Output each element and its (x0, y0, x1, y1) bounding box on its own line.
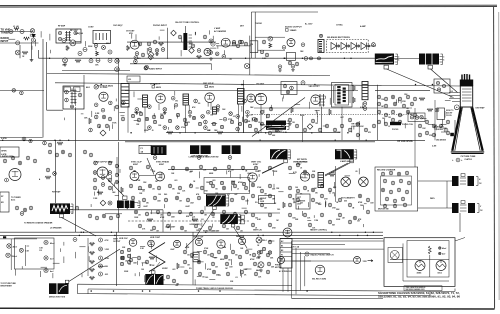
wire audio plate rail (127, 41, 216, 43)
connector pin 1 (280, 242, 292, 244)
capacitor C476 (393, 204, 397, 208)
horiz hold graph plate (220, 214, 238, 224)
capacitor C317 (101, 176, 105, 180)
CRT faceplate (451, 152, 484, 154)
capacitor C414 (311, 174, 315, 178)
wire (292, 253, 330, 255)
IF transformer T8 (238, 89, 245, 105)
capacitor C475 (383, 204, 387, 208)
capacitor C221 (148, 126, 152, 130)
svg-text:21ATP4: 21ATP4 (464, 158, 472, 161)
capacitor C150 (278, 65, 282, 69)
wire sync lead (147, 158, 154, 175)
resistor R111 (159, 43, 164, 46)
antenna arrow (32, 35, 35, 39)
capacitor C411 (288, 186, 292, 190)
capacitor C612 (58, 37, 61, 40)
capacitor C216 (253, 117, 257, 121)
capacitor C511 (217, 250, 221, 254)
svg-text:.047: .047 (190, 256, 194, 259)
svg-text:2.2M: 2.2M (95, 113, 100, 115)
wire leads horiz band (131, 241, 275, 285)
capacitor C234 (275, 128, 279, 132)
svg-text:4BZ6: 4BZ6 (209, 86, 215, 89)
test point TP7 (100, 200, 106, 206)
svg-text:INPUT: INPUT (1, 39, 9, 43)
wire B+ bus lower (0, 231, 383, 233)
vertical output V14 (300, 172, 309, 181)
bracket horiz freq (226, 195, 229, 206)
junction (228, 156, 232, 160)
capacitor C441 (348, 220, 352, 224)
svg-text:.001: .001 (172, 269, 176, 271)
svg-text:4mf: 4mf (442, 253, 446, 256)
capacitor C124 (155, 49, 159, 53)
selenium rectifier V22 (315, 265, 325, 275)
capacitor C220 (163, 126, 167, 130)
svg-text:100: 100 (300, 177, 303, 179)
capacitor C514 (238, 255, 242, 259)
bracket P5 (354, 150, 357, 159)
svg-text:390: 390 (177, 193, 180, 195)
junction (310, 57, 313, 60)
wire sound takeoff (75, 109, 77, 232)
reactance tube V28 (148, 240, 155, 247)
svg-text:.01: .01 (237, 188, 239, 190)
svg-text:560: 560 (235, 254, 238, 256)
wire B+ distribution rail (55, 83, 460, 86)
capacitor C302 (46, 168, 50, 172)
capacitor C107 (62, 39, 66, 43)
resistor R123 (353, 97, 356, 103)
capacitor C326 (109, 216, 113, 220)
wire (300, 252, 302, 291)
svg-text:1.5M: 1.5M (93, 198, 98, 200)
capacitor C182 (286, 90, 290, 94)
svg-text:.001: .001 (174, 180, 178, 182)
capacitor C264 (406, 95, 410, 99)
horizontal output V18 (217, 240, 225, 248)
capacitor C249 (372, 124, 376, 128)
wire B+ drop (243, 80, 245, 133)
svg-text:390: 390 (315, 192, 318, 194)
capacitor C263 (398, 97, 402, 101)
capacitor C375 (178, 210, 182, 214)
capacitor C469 (389, 190, 393, 194)
capacitor C202 (163, 108, 167, 112)
capacitor C384 (166, 224, 170, 228)
svg-text:.001: .001 (105, 274, 109, 276)
capacitor C466 (399, 179, 403, 183)
capacitor C643 (127, 254, 130, 257)
label 12AB5 (286, 29, 298, 33)
wire (254, 12, 256, 58)
capacitor C224 (183, 118, 187, 122)
height control box (259, 196, 275, 204)
junction dot (3, 236, 6, 238)
capacitor C608 (192, 116, 195, 119)
fuse block outline (139, 145, 151, 153)
wire sync bus (168, 168, 255, 170)
capacitor C510 (210, 253, 214, 257)
capacitor C518 (266, 253, 270, 257)
capacitor C318 (108, 178, 112, 182)
capacitor C105 (31, 38, 35, 42)
svg-text:470K: 470K (358, 201, 363, 204)
svg-text:MOVE TO: MOVE TO (446, 110, 454, 112)
test point TP9 (148, 55, 153, 60)
capacitor C647 (220, 181, 223, 184)
pin 2 (442, 84, 445, 87)
sync clipper V11 (130, 172, 139, 181)
svg-text:115V: 115V (363, 261, 368, 263)
wire output lead (106, 178, 124, 197)
svg-text:.0047: .0047 (143, 205, 148, 208)
capacitor C355 (200, 186, 204, 190)
wire (302, 116, 304, 142)
capacitor C133 (141, 53, 145, 57)
audio amp V10 (97, 167, 108, 178)
svg-text:AUDIO OUTPUT: AUDIO OUTPUT (285, 26, 302, 29)
wire (292, 244, 345, 246)
junction (89, 153, 93, 157)
wire (210, 102, 212, 110)
ground (246, 114, 250, 117)
capacitor C281 (418, 124, 422, 128)
svg-text:DAMPER: DAMPER (236, 235, 245, 238)
capacitor C265 (413, 97, 417, 101)
wire (280, 237, 383, 239)
capacitor C114 (89, 59, 93, 63)
wire audio bus (39, 57, 376, 59)
capacitor C467 (407, 181, 411, 185)
wire (216, 45, 251, 47)
wire (249, 36, 251, 75)
svg-text:F2: F2 (281, 259, 283, 261)
bracket T4 (440, 54, 443, 65)
capacitor C368 (219, 196, 223, 200)
resistor R174 (90, 261, 95, 264)
junction (153, 156, 157, 160)
capacitor C370 (241, 196, 245, 200)
wire height control lead (262, 163, 283, 173)
label 4BZ6 (152, 86, 162, 89)
capacitor C378 (211, 212, 215, 216)
audio output pentode V3 (287, 39, 295, 47)
capacitor C525 (267, 262, 271, 266)
capacitor C278 (384, 122, 388, 126)
capacitor C520 (197, 260, 201, 264)
sound discriminator transformer T9 (332, 83, 353, 108)
wire leads audio out band (91, 161, 120, 207)
capacitor C523 (239, 262, 243, 266)
wire (402, 243, 404, 281)
sound take-off coil L6 (319, 94, 325, 107)
capacitor C408 (288, 166, 292, 170)
wire (260, 105, 262, 133)
wire (184, 26, 186, 33)
wire (116, 157, 118, 175)
capacitor C354 (189, 184, 193, 188)
wire ground return (78, 294, 431, 296)
capacitor C271 (377, 110, 381, 114)
horizontal lock graph plate (335, 149, 354, 159)
capacitor C201 (148, 105, 152, 109)
phono motor board outline (375, 167, 418, 211)
wire (390, 259, 449, 261)
wire heater rail (47, 74, 330, 76)
capacitor C423 (338, 198, 342, 202)
wire AGC feed (42, 39, 44, 138)
svg-text:1ST DET: 1ST DET (126, 31, 135, 33)
capacitor C269 (402, 104, 406, 108)
svg-text:.047: .047 (340, 116, 344, 119)
wire input lead (0, 31, 33, 33)
capacitor C434 (353, 216, 357, 220)
capacitor C165 (94, 103, 98, 107)
resistor R131 (427, 109, 433, 112)
capacitor C364 (175, 196, 179, 200)
IF amplifier V5 (156, 94, 166, 104)
ground (30, 58, 34, 61)
capacitor C290 (435, 108, 439, 112)
bracket P4 (288, 150, 291, 159)
capacitor C404 (260, 189, 264, 193)
capacitor C309 (23, 208, 27, 212)
svg-text:5%: 5% (255, 202, 258, 204)
wire b+ rail (0, 137, 43, 139)
capacitor C356 (211, 184, 215, 188)
terminal board TB3 (0, 147, 19, 157)
capacitor C183 (363, 102, 367, 106)
capacitor C348 (129, 184, 133, 188)
discriminator triode V4 (99, 92, 108, 101)
capacitor C530 (240, 270, 244, 274)
CRT pin leads (449, 93, 460, 102)
svg-text:470K: 470K (207, 268, 212, 271)
page edge shade (498, 12, 500, 300)
svg-text:.047: .047 (175, 284, 179, 287)
wire leads sync band (135, 168, 367, 230)
junction (29, 139, 32, 142)
capacitor C142 (268, 36, 273, 41)
ground (135, 111, 139, 114)
svg-text:6mf: 6mf (50, 259, 54, 261)
capacitor C527 (198, 272, 202, 276)
warning box (296, 194, 310, 209)
capacitor C406 (268, 194, 272, 198)
connector P10 (123, 196, 128, 199)
capacitor C280 (398, 120, 402, 124)
capacitor C531 (254, 272, 258, 276)
wire (87, 238, 89, 276)
wire (105, 213, 122, 215)
capacitor C428 (251, 213, 255, 217)
capacitor C144 (282, 46, 286, 50)
power transformer T12 (151, 145, 167, 155)
capacitor C110 (108, 50, 112, 54)
wire (255, 36, 285, 38)
wire (454, 120, 456, 140)
resistor R147 (127, 203, 130, 209)
capacitor C102 (20, 30, 24, 34)
svg-text:ON-OFF TONE CONTROL: ON-OFF TONE CONTROL (175, 22, 200, 24)
capacitor C649 (242, 182, 245, 185)
rectifier tube V25 (436, 261, 446, 275)
capacitor C173 (121, 117, 125, 121)
capacitor C363 (164, 198, 168, 202)
trimmer A (64, 87, 71, 92)
capacitor C134 (209, 51, 213, 55)
svg-text:220K: 220K (144, 130, 149, 132)
capacitor C379 (222, 210, 226, 214)
svg-text:470K: 470K (238, 181, 243, 184)
wire (185, 210, 214, 248)
wire (243, 90, 245, 133)
capacitor C247 (356, 133, 360, 137)
triode V1 (130, 40, 139, 49)
phono motor M1 (390, 251, 399, 260)
svg-text:.047: .047 (234, 193, 238, 196)
capacitor C512 (224, 255, 228, 259)
capacitor C360 (131, 196, 135, 200)
brightness control R162 (222, 145, 241, 154)
vertical output transformer T4 (419, 54, 439, 65)
junction (71, 105, 74, 108)
oscillator can box (56, 29, 81, 43)
capacitor C501 (129, 258, 133, 262)
svg-text:.001: .001 (138, 214, 141, 216)
capacitor C435 (366, 210, 370, 214)
svg-text:270K: 270K (150, 265, 155, 267)
capacitor C374 (167, 212, 171, 216)
capacitor C346 (227, 165, 231, 169)
capacitor C276 (413, 113, 417, 117)
capacitor C185 (301, 81, 305, 85)
capacitor C112 (78, 52, 82, 56)
wire yoke plug lead (69, 249, 120, 282)
wire (341, 107, 343, 141)
capacitor C270 (410, 102, 414, 106)
capacitor C138 (236, 44, 240, 48)
svg-text:5: 5 (443, 60, 444, 62)
svg-text:PHONO INPUT: PHONO INPUT (153, 25, 168, 27)
CRT funnel (452, 108, 482, 151)
capacitor C340 (129, 166, 133, 170)
focus coil L7 (390, 122, 401, 125)
junction (439, 247, 441, 249)
svg-text:.0047: .0047 (243, 268, 248, 271)
capacitor C266 (377, 102, 381, 106)
contrast control R160 upper (266, 121, 286, 126)
coil L5 (213, 107, 217, 114)
deflection coil L9 (341, 177, 351, 187)
resistor R101 (14, 27, 19, 30)
capacitor C386 (194, 224, 198, 228)
capacitor C127 (203, 35, 207, 39)
svg-text:TO HORIZ: TO HORIZ (434, 129, 444, 131)
capacitor C214 (243, 99, 247, 103)
svg-text:100: 100 (141, 269, 144, 271)
capacitor C644 (120, 262, 123, 265)
capacitor C610 (58, 31, 61, 34)
wire (128, 220, 250, 222)
IF transformer T7 (183, 94, 189, 105)
wire (403, 280, 449, 282)
capacitor C424 (328, 203, 332, 207)
capacitor C377 (200, 210, 204, 214)
capacitor C433 (338, 213, 342, 217)
svg-text:680K: 680K (209, 173, 214, 175)
capacitor C235 (281, 124, 285, 128)
wire (394, 58, 419, 60)
capacitor C164 (78, 93, 82, 97)
svg-text:100: 100 (158, 194, 161, 196)
capacitor C275 (406, 110, 410, 114)
oscillator coil L2 (70, 40, 76, 46)
svg-text:6SN7: 6SN7 (159, 164, 165, 166)
wire leads video band (384, 98, 450, 132)
capacitor C169 (122, 101, 126, 105)
capacitor C376 (189, 212, 193, 216)
phono motor inner outline (381, 176, 412, 205)
svg-text:100: 100 (228, 259, 231, 261)
wire (292, 260, 353, 262)
wire (87, 289, 89, 294)
capacitor C172 (108, 117, 112, 121)
resistor R190 (428, 246, 431, 254)
svg-text:4 AMP: 4 AMP (360, 25, 366, 28)
capacitor C282 (425, 120, 429, 124)
yoke horizontal coils L11 (452, 176, 478, 186)
wire to CRT cathode (431, 69, 458, 93)
svg-text:270K: 270K (231, 181, 236, 183)
capacitor C611 (220, 125, 223, 128)
resistor R103 (22, 51, 28, 54)
capacitor C388 (222, 224, 226, 228)
yoke vertical coils L12 (452, 203, 479, 213)
svg-text:100: 100 (295, 187, 298, 189)
triode V2 (221, 38, 230, 47)
capacitor C422 (328, 188, 332, 192)
connector P4 (284, 159, 288, 163)
horiz size graph plate B (155, 274, 164, 285)
capacitor C522 (225, 262, 229, 266)
junction (197, 156, 201, 160)
sawtooth symbol (149, 243, 165, 272)
ground (209, 57, 213, 60)
capacitor C407 (260, 203, 264, 207)
rectifier stack outline (327, 40, 369, 53)
resistor R113 (197, 56, 202, 59)
capacitor C242 (333, 128, 337, 132)
capacitor C198 (68, 153, 72, 157)
capacitor C402 (251, 183, 255, 187)
oscillator V29 (354, 257, 361, 264)
audio detector V9 (9, 169, 21, 181)
svg-text:470K: 470K (136, 179, 141, 182)
bracket T3 (395, 54, 398, 65)
wire (282, 268, 284, 292)
svg-text:DEFL: DEFL (430, 198, 436, 200)
svg-text:RATIO DET: RATIO DET (2, 155, 13, 158)
resistor R127 (329, 109, 332, 115)
capacitor C197 (61, 150, 65, 154)
alignment point TP4 (94, 85, 98, 89)
capacitor C555 (262, 247, 265, 250)
resistor R145 (147, 219, 153, 222)
capacitor C217 (236, 127, 240, 131)
